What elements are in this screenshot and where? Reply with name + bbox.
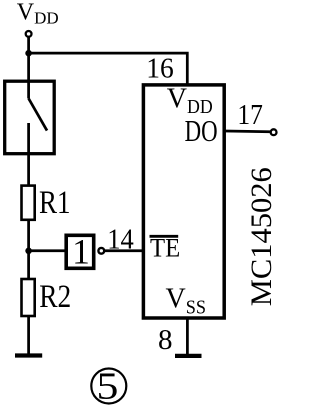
ground VSS — [175, 354, 202, 358]
svg-text:16: 16 — [146, 53, 174, 85]
switch S1 — [5, 81, 55, 154]
svg-text:MC145026: MC145026 — [245, 167, 278, 306]
ground R2 — [15, 353, 42, 357]
wire VDD to pin 16 — [29, 53, 188, 85]
resistor R2 — [22, 279, 35, 316]
wire R2 to ground — [27, 316, 30, 355]
junction TE node — [25, 248, 32, 255]
svg-text:R2: R2 — [39, 279, 71, 315]
junction VDD — [25, 50, 32, 57]
svg-text:DO: DO — [185, 113, 218, 148]
svg-text:17: 17 — [237, 99, 263, 131]
svg-text:5: 5 — [97, 365, 119, 407]
inverter output bubble — [98, 248, 104, 254]
wire R1 to R2 — [27, 220, 30, 279]
svg-text:1: 1 — [72, 232, 90, 272]
IC pin label TE overline — [150, 235, 179, 238]
wire switch to R1 — [27, 153, 30, 185]
wire VDD vertical — [27, 37, 30, 81]
wire pin 8 stub — [186, 319, 189, 356]
terminal VDD — [26, 31, 32, 37]
IC U1 MC145026 — [143, 85, 224, 318]
figure number 5 — [91, 365, 126, 407]
svg-text:R1: R1 — [39, 185, 71, 221]
inverter U2 — [66, 232, 94, 272]
svg-text:8: 8 — [158, 324, 173, 356]
wire DO to terminal — [225, 130, 270, 134]
wire inverter to TE pin — [105, 249, 145, 252]
resistor R1 — [22, 186, 35, 220]
terminal DO — [271, 129, 277, 135]
svg-text:TE: TE — [150, 233, 180, 262]
wire junction to inverter — [29, 249, 66, 252]
